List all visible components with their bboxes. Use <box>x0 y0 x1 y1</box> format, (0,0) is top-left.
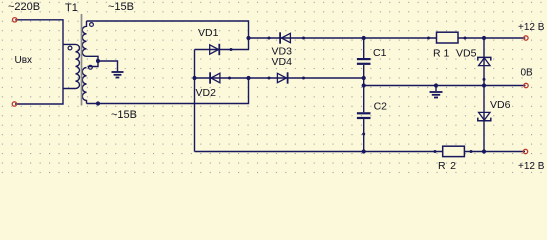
transformer T1 secondary winding top <box>82 21 98 61</box>
node R1 pin left <box>427 37 430 40</box>
terminal ~220V top <box>13 18 17 22</box>
node VD4 pin right <box>302 77 305 80</box>
ground (0V rail) <box>430 86 443 98</box>
svg-text:~15В: ~15В <box>108 1 134 13</box>
node R2 pin left <box>434 150 437 153</box>
terminal +12V top <box>524 36 528 40</box>
wire bottom rail <box>195 151 526 153</box>
node VD5/VD6 on 0V rail <box>482 83 486 87</box>
diode VD3 <box>280 32 290 43</box>
diode VD4 <box>277 72 287 83</box>
svg-text:R 2: R 2 <box>438 160 457 172</box>
transformer polarity dot primary <box>68 46 72 50</box>
node VD4 pin left <box>268 77 271 80</box>
terminal 0V <box>524 83 528 87</box>
svg-text:C2: C2 <box>374 101 388 113</box>
transformer polarity dot secondary top <box>90 23 94 27</box>
svg-text:VD1: VD1 <box>198 27 219 39</box>
transformer T1 primary winding <box>63 44 79 88</box>
wire input top from terminal to transformer primary <box>15 20 63 45</box>
diode VD1 <box>210 44 220 55</box>
node VD2 anode pin <box>228 77 231 80</box>
resistor R1 <box>437 32 459 43</box>
svg-text:Uвх: Uвх <box>15 55 33 66</box>
wire input bottom from terminal to transformer primary <box>15 89 63 105</box>
node VD2/VD4 row joins capacitor bus <box>362 76 366 80</box>
wire VD2/VD4 row <box>195 77 364 79</box>
node VD5 top on +12V rail <box>482 36 486 40</box>
diode VD2 <box>210 72 220 83</box>
node VD6 on bottom rail <box>482 149 486 153</box>
wire secondary top rail <box>87 21 249 38</box>
svg-text:+12 В: +12 В <box>518 161 545 172</box>
node VD5 bottom pin <box>483 78 486 81</box>
svg-text:0В: 0В <box>521 68 534 79</box>
transformer T1 secondary winding bottom <box>82 61 98 104</box>
node C1 top on +12V rail <box>362 36 366 40</box>
svg-text:VD4: VD4 <box>272 56 293 68</box>
node ground on 0V rail <box>434 83 438 87</box>
node C2 bottom pin <box>362 133 365 136</box>
node C2 on bottom rail <box>362 149 366 153</box>
node top rail to VD3 row <box>246 36 250 40</box>
svg-text:VD6: VD6 <box>490 99 511 111</box>
transformer polarity dot secondary bottom <box>89 65 93 69</box>
resistor R2 <box>443 146 465 156</box>
wire VD3 row / +12V rail <box>249 37 526 39</box>
capacitor C2 <box>357 113 371 118</box>
terminal ~220V bottom <box>12 102 16 106</box>
node VD1 cathode pin <box>230 48 233 51</box>
ground (transformer center tap) <box>112 72 124 78</box>
node 0V rail joins capacitor bus <box>362 83 366 87</box>
wire long vertical left bus <box>194 50 196 152</box>
node VD3 pin right <box>302 37 305 40</box>
node secondary bottom junction <box>96 101 100 105</box>
wire capacitor bus C1/C2 <box>363 38 365 58</box>
transformer core <box>81 14 83 106</box>
svg-text:T1: T1 <box>65 2 78 14</box>
zener diode VD6 <box>478 112 491 120</box>
svg-text:~220В: ~220В <box>8 1 40 13</box>
terminal +12V bottom <box>523 149 527 153</box>
node left bus / VD2 row <box>192 76 196 80</box>
node bottom AC feed to VD2/VD4 row <box>246 76 250 80</box>
svg-text:VD5: VD5 <box>456 48 477 60</box>
wire center tap to ground <box>98 61 118 72</box>
zener diode VD5 <box>478 57 491 65</box>
node VD3 pin left <box>268 37 271 40</box>
wire VD5/VD6 vertical <box>483 38 485 152</box>
wire 0V rail <box>364 85 526 87</box>
svg-text:~15В: ~15В <box>111 109 137 121</box>
wire VD1 row <box>195 38 249 50</box>
svg-text:R 1: R 1 <box>433 48 450 60</box>
svg-text:VD2: VD2 <box>196 87 217 99</box>
svg-text:+12 В: +12 В <box>518 22 545 33</box>
node R2 pin right <box>470 150 473 153</box>
wire secondary bottom rail <box>87 78 249 104</box>
capacitor C1 <box>357 59 371 64</box>
node center tap junction <box>96 59 100 63</box>
svg-text:C1: C1 <box>373 47 387 59</box>
node R1 pin right <box>464 37 467 40</box>
